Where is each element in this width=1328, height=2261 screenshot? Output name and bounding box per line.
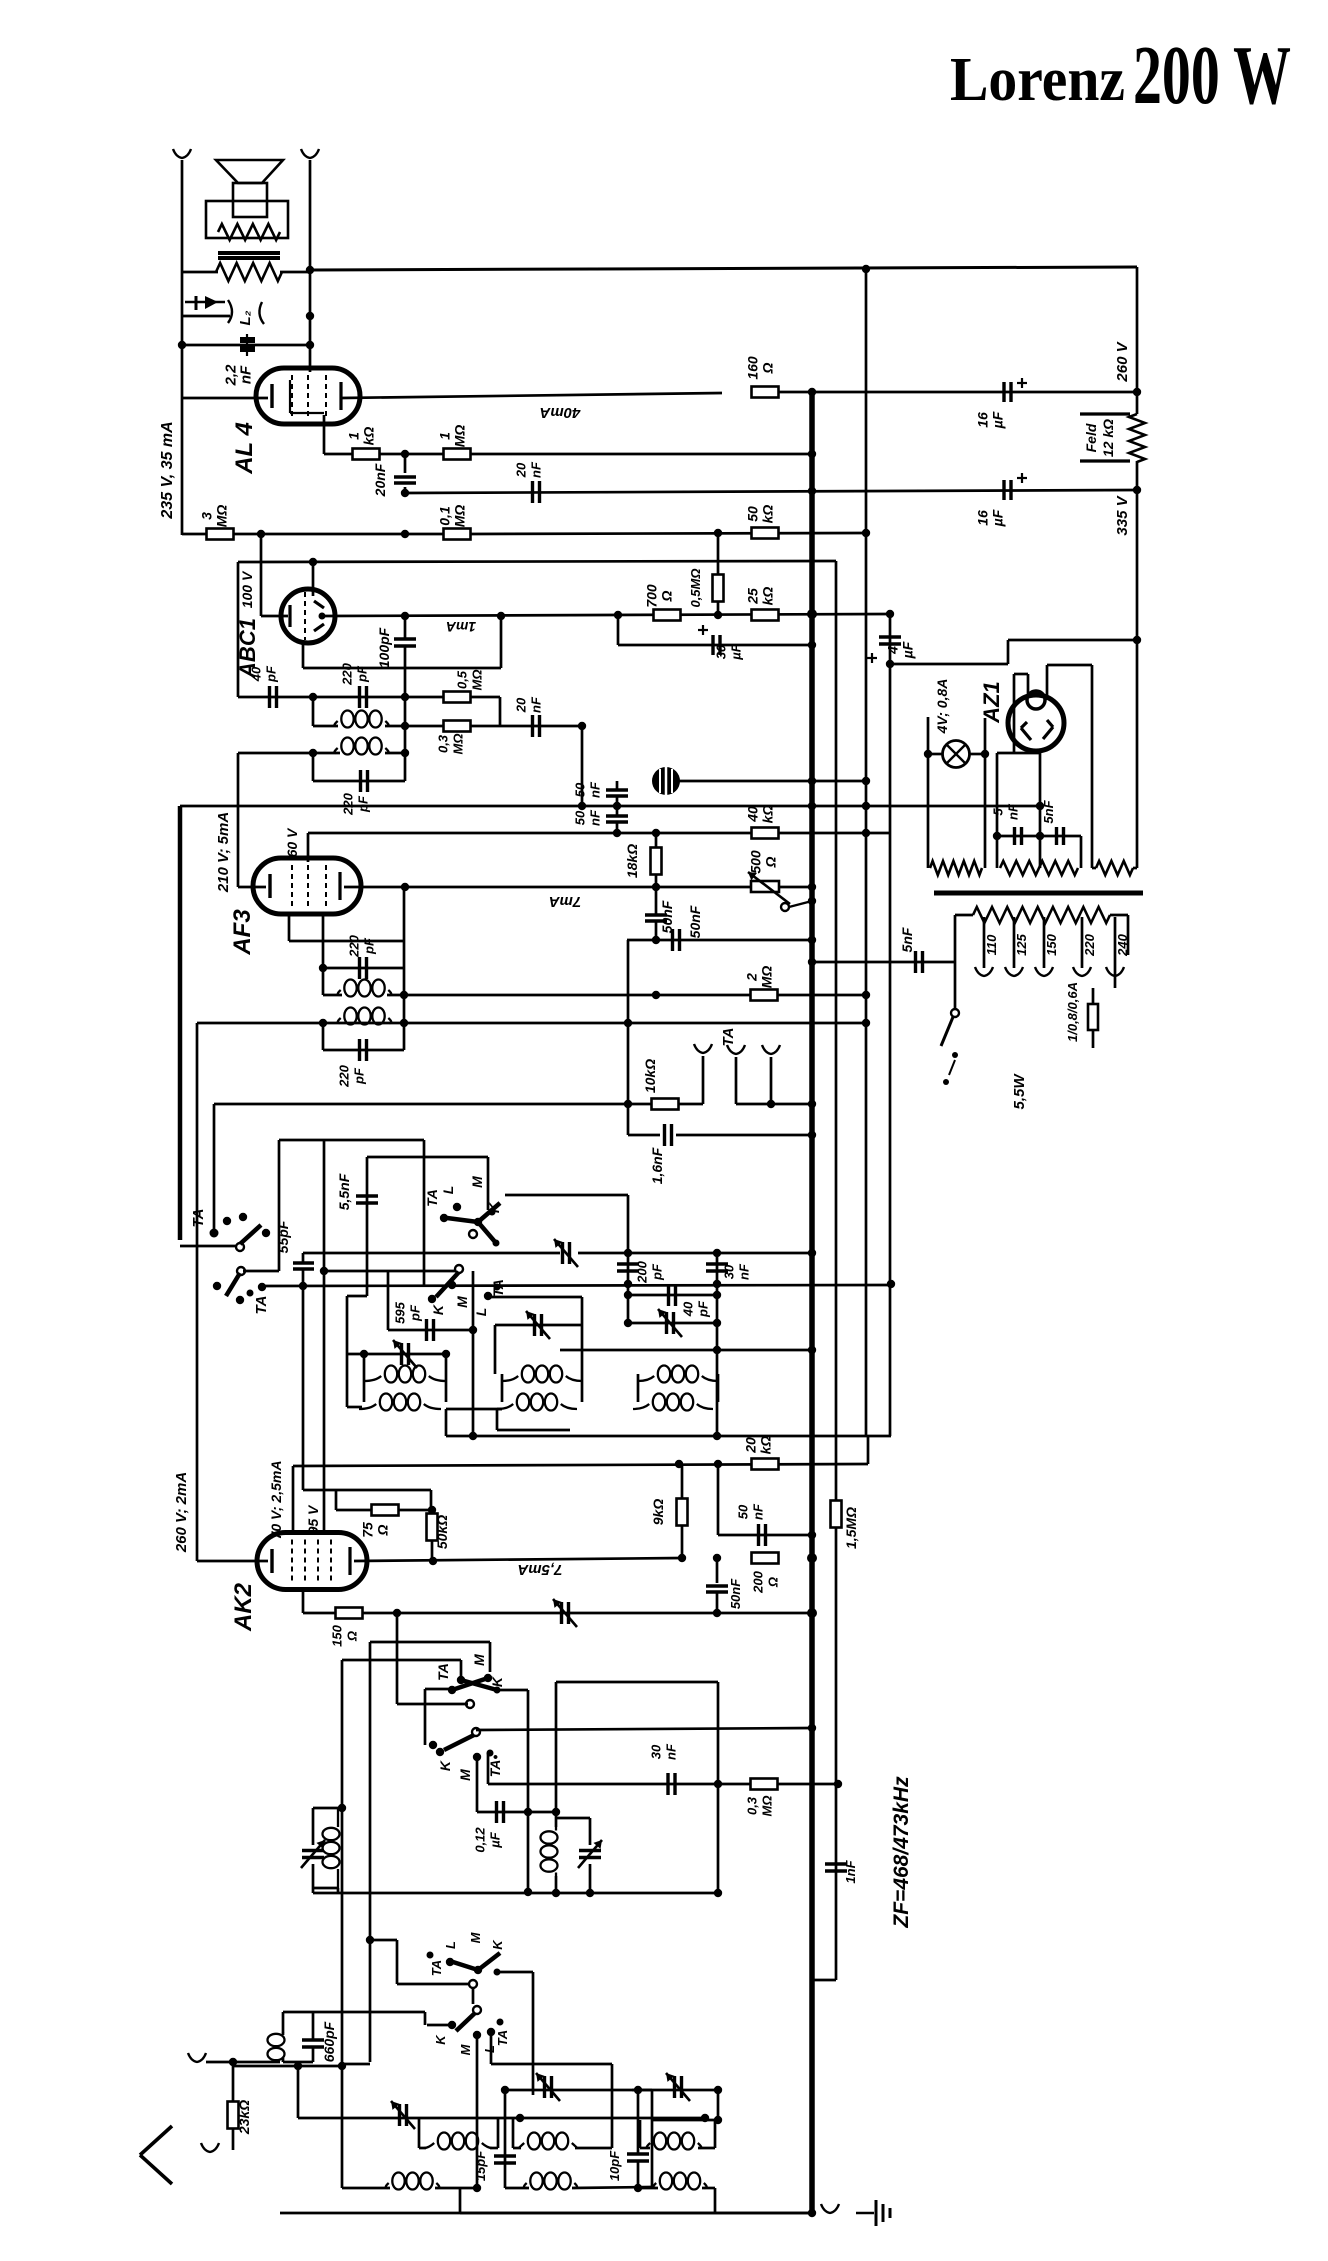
svg-text:pF: pF (264, 665, 279, 683)
wire 1271 row (324, 1270, 455, 1273)
capacitor 30 uF (713, 635, 720, 655)
node 313 753 (309, 749, 317, 757)
capacitor 220 pF AF3b (360, 1039, 367, 1061)
wire bottom long (460, 2212, 812, 2215)
bf3 u left stub (640, 2147, 650, 2150)
node 628 1295 (624, 1291, 632, 1299)
node 890 614 (886, 610, 894, 618)
node jack (306, 312, 314, 320)
label 1 MOhm (437, 425, 468, 448)
resistor 75 Ohm (372, 1505, 399, 1516)
capacitor 4 uF (879, 637, 901, 644)
node 364 1355 (360, 1350, 368, 1358)
label 150 Ohm (330, 1624, 360, 1646)
wire AF3 cathode (238, 886, 266, 889)
wire plate left v (1013, 674, 1016, 753)
IF transformer 1 right (445, 1374, 448, 1402)
svg-text:25: 25 (745, 588, 761, 605)
label K d (437, 1760, 453, 1771)
wire 397 vert e (396, 1940, 399, 1984)
svg-text:150: 150 (1044, 933, 1059, 955)
svg-text:220: 220 (1082, 933, 1097, 956)
wire fil right v (1039, 753, 1042, 868)
wire stack a (616, 781, 619, 790)
wire L row (491, 2063, 612, 2066)
wire 500 vert (499, 697, 502, 726)
capacitor 40 pF (270, 686, 277, 708)
svg-text:TA: TA (424, 1189, 440, 1207)
svg-text:µF: µF (990, 411, 1006, 429)
resistor 160 ohm (752, 387, 779, 398)
node bus 1728 (808, 1724, 816, 1732)
svg-text:210 V; 5mA: 210 V; 5mA (215, 812, 232, 893)
wire 664 row (890, 663, 1008, 666)
node 866 1023 (862, 1019, 870, 1027)
node 985 754 (981, 750, 989, 758)
label ABC1 (235, 618, 260, 679)
wire 940 row (627, 939, 812, 942)
svg-text:nF: nF (737, 1263, 752, 1280)
wire 1325 row (495, 1324, 582, 1327)
wire lamp row (928, 753, 942, 756)
IF2 drop (496, 1409, 499, 1430)
wire 425 vert (424, 1689, 427, 1745)
label 30uF (714, 643, 744, 660)
node 656 833 (652, 829, 660, 837)
svg-text:50nF: 50nF (728, 1578, 743, 1609)
svg-text:55pF: 55pF (275, 1220, 291, 1253)
resistor 40 kOhm (752, 828, 779, 839)
wire 238 down a (237, 562, 240, 697)
IF2 link l (497, 1408, 502, 1411)
wire osc tank1 lb (312, 1864, 315, 1888)
wire 501 vert (500, 616, 503, 668)
band filter 1 coil lower (386, 2173, 440, 2190)
wire AF3 grid (307, 833, 310, 862)
svg-text:20: 20 (514, 697, 529, 713)
svg-text:M: M (468, 1931, 483, 1943)
svg-text:nF: nF (529, 461, 544, 478)
wire 404 down (403, 887, 406, 1023)
svg-text:AZ1: AZ1 (979, 681, 1004, 724)
wire 1682 row (556, 1681, 718, 1684)
node 628 1283 (624, 1280, 632, 1288)
wire 995 row (323, 994, 342, 997)
svg-text:TA: TA (490, 1279, 506, 1297)
label 0,3 MOhm (436, 734, 466, 755)
label 20nF (372, 463, 388, 497)
wire 717 vert (716, 1253, 719, 1433)
label 210V 5mA (215, 812, 232, 893)
wire screen loop l (288, 914, 291, 941)
wire 1642 row (370, 1641, 490, 1644)
svg-text:10kΩ: 10kΩ (642, 1059, 658, 1093)
resistor 50 kOhm a (752, 528, 779, 539)
svg-text:pF: pF (355, 665, 370, 683)
resistor 9 kOhm (677, 1499, 688, 1526)
ground symbol (856, 2200, 890, 2226)
wire 618 down (617, 615, 620, 645)
label TA f (495, 2030, 510, 2046)
node 618 615 (614, 611, 622, 619)
hook TA 3 (762, 1045, 780, 1054)
resistor 150 Ohm (336, 1608, 363, 1619)
svg-text:40mA: 40mA (540, 404, 582, 421)
tone jack (185, 296, 264, 324)
label L2 (237, 310, 254, 325)
node speaker rail (178, 341, 186, 349)
resistor 1,5 MOhm (831, 1501, 842, 1528)
node 718 1464 (714, 1460, 722, 1468)
label 20 kOhm (743, 1436, 774, 1455)
svg-text:Ω: Ω (659, 590, 675, 602)
bf1 u left stub (419, 2147, 426, 2150)
wire antenna filter row (233, 2065, 342, 2068)
wire K right (497, 1689, 528, 1692)
label 70V 25mA (268, 1461, 284, 1540)
svg-text:1: 1 (437, 432, 453, 440)
svg-text:3: 3 (199, 512, 215, 520)
wire 612 down (611, 2064, 614, 2148)
wire 100pF bottom (404, 646, 407, 697)
svg-text:2: 2 (744, 973, 760, 982)
svg-text:ZF=468/473kHz: ZF=468/473kHz (890, 1776, 913, 1929)
svg-text:12 kΩ: 12 kΩ (1100, 419, 1116, 457)
resistor 0,3 MOhm (444, 721, 471, 732)
svg-text:AF3: AF3 (229, 909, 256, 956)
node 638 2090 (634, 2086, 642, 2094)
wire 431 vert (430, 1490, 433, 1510)
svg-text:1,6nF: 1,6nF (649, 1147, 665, 1184)
node 628 1023 (624, 1019, 632, 1027)
label 50nF 940 (659, 900, 675, 933)
bf1 u right stub (490, 2147, 498, 2150)
bf3 l corner (714, 2188, 717, 2213)
coil tank1 ABC1 (334, 738, 388, 755)
fuse 1/0,8/0,6A (1088, 1004, 1098, 1030)
svg-text:200: 200 (635, 1260, 650, 1283)
node 718 1893 (714, 1889, 722, 1897)
wire right rail upper (1136, 267, 1139, 414)
wire 1295 row (628, 1294, 717, 1297)
wire gang row 2118 (298, 2117, 705, 2120)
svg-text:200: 200 (751, 1570, 766, 1593)
wire jack row (182, 315, 230, 318)
capacitor 40 pF b (669, 1284, 676, 1306)
wire grid to 1k (324, 453, 353, 456)
svg-text:MΩ: MΩ (759, 966, 775, 989)
wire 1323 row (628, 1322, 717, 1325)
svg-text:K: K (433, 2034, 448, 2045)
label K a (486, 1202, 502, 1213)
svg-text:pF: pF (650, 1263, 665, 1281)
speaker coil box (233, 183, 267, 217)
resistor 25 kOhm (752, 610, 779, 621)
node 432 1510 (428, 1506, 436, 1514)
tap 240 (1114, 917, 1117, 968)
node 582 806 (578, 802, 586, 810)
label 0,5MOhm vert (688, 568, 703, 607)
label TA c (435, 1663, 451, 1681)
svg-text:5nF: 5nF (1041, 799, 1056, 823)
wire AK2 bottom pin (302, 1590, 305, 1613)
winding prim right (1110, 914, 1128, 917)
wire 432 vert (431, 1540, 434, 1561)
label M e (468, 1931, 483, 1943)
capacitor 1,6 nF (665, 1124, 672, 1146)
wire jog 1296 (347, 1295, 367, 1298)
node 501 616 (497, 612, 505, 620)
wire 1355 row (347, 1353, 446, 1356)
svg-text:nF: nF (238, 365, 255, 384)
svg-text:4: 4 (885, 646, 901, 655)
svg-text:0,5MΩ: 0,5MΩ (688, 568, 703, 607)
band filter 3 coil lower (653, 2173, 706, 2190)
node 342 1808 (338, 1804, 346, 1812)
label 5,5nF (336, 1173, 352, 1210)
label M d (457, 1769, 473, 1781)
hook TA 2 (727, 1045, 745, 1054)
tube ABC1 (281, 589, 335, 643)
capacitor 50nF 1589 (706, 1586, 728, 1592)
label 0,3 M osc (745, 1796, 775, 1817)
wire 425 down (424, 2012, 427, 2025)
wire left rail top (181, 160, 184, 535)
svg-text:0,3: 0,3 (436, 734, 451, 753)
label 10pF (607, 2150, 622, 2181)
label 5,5W (1011, 1073, 1028, 1110)
coil antenna 660 (268, 2032, 285, 2062)
svg-text:M: M (471, 1654, 487, 1666)
wire speaker row (182, 271, 218, 274)
wire 9k top (681, 1464, 684, 1499)
label 20 nF inline (514, 461, 544, 478)
svg-text:MΩ: MΩ (470, 670, 485, 691)
wire 488 down (487, 1157, 490, 1210)
resistor 200 Ohm (752, 1553, 779, 1564)
band filter 2 coil lower (524, 2173, 577, 2190)
node top bus join (306, 266, 314, 274)
svg-text:AK2: AK2 (230, 1582, 257, 1632)
wire 342 vert low (341, 2066, 344, 2188)
wire plate right v (1091, 665, 1094, 868)
wire 10pF v2 (637, 2161, 640, 2188)
wire 367 vert (366, 1157, 369, 1296)
node 473 1436 (469, 1432, 477, 1440)
label 500 Ohm (748, 850, 779, 874)
node 656 940 (652, 936, 660, 944)
wire 718 vert up (717, 1682, 720, 1784)
wire 303 vert (302, 640, 305, 668)
svg-text:0,12: 0,12 (473, 1827, 488, 1853)
node 656 887 (652, 883, 660, 891)
IF transformer 2 primary coil (502, 1366, 582, 1383)
wire 20nF top (404, 454, 407, 473)
output transformer core (218, 253, 280, 258)
mains switch (941, 1009, 959, 1085)
label 1,6nF (649, 1147, 665, 1184)
label 220 pF AF3b (337, 1064, 367, 1087)
node 682 1558 (678, 1554, 686, 1562)
fuse lead bottom (1092, 1030, 1095, 1048)
svg-text:50: 50 (745, 506, 761, 522)
bf1 l corner (459, 2188, 462, 2213)
node 866 268 (862, 265, 870, 273)
band switch B (428, 1265, 501, 1303)
svg-text:L: L (440, 1186, 456, 1195)
node bus 962 (808, 958, 816, 966)
wire tank2 l (322, 1023, 325, 1050)
node 997 836 (993, 832, 1001, 840)
wire plate right h (1047, 664, 1092, 667)
bf1 u left (418, 2118, 421, 2148)
resistor 20 kOhm (752, 1459, 779, 1470)
bf3 u right stub (698, 2147, 715, 2150)
svg-text:70 V; 2,5mA: 70 V; 2,5mA (268, 1461, 284, 1540)
node 473 1330 (469, 1326, 477, 1334)
label AL4 (231, 422, 258, 475)
resistor 0,1 MOhm upper (444, 529, 471, 540)
svg-text:M: M (458, 2043, 473, 2055)
node 705 2118 (701, 2114, 709, 2122)
svg-text:TA: TA (720, 1028, 737, 1047)
wire 261 down (260, 534, 263, 616)
tap 125 (1013, 917, 1016, 968)
wire 1510 row (336, 1509, 431, 1512)
IF transformer 3 left (637, 1374, 640, 1402)
bf3 l left (638, 2187, 658, 2190)
svg-text:M: M (457, 1769, 473, 1781)
capacitor 16uF lower (1004, 480, 1011, 500)
label 700 Ohm (644, 584, 675, 608)
label 220 pF tank (341, 792, 371, 815)
wire 582 vert top (581, 1297, 584, 1325)
svg-text:MΩ: MΩ (452, 425, 468, 448)
wire fil shoulder (997, 752, 1040, 755)
svg-text:700: 700 (644, 584, 660, 608)
capacitor 30 nF (706, 1264, 728, 1271)
wire AL4 plate lead (341, 393, 722, 398)
svg-text:60 V: 60 V (284, 827, 300, 857)
label Feld (1083, 423, 1099, 452)
node 303 1286 (299, 1282, 307, 1290)
svg-text:235 V, 35 mA: 235 V, 35 mA (159, 421, 176, 519)
label 25 kOhm (745, 587, 776, 606)
node 528 1893 (524, 1888, 532, 1896)
node 405 887 (401, 883, 409, 891)
svg-text:MΩ: MΩ (451, 734, 466, 755)
bus left thick (178, 806, 183, 1240)
band filter 3 coil upper (647, 2133, 702, 2150)
capacitor 50 nF stack upper (606, 790, 628, 796)
node 404 1023 (400, 1019, 408, 1027)
tube AK2 (257, 1533, 367, 1590)
svg-text:L₂: L₂ (237, 310, 254, 325)
wire 1139 corner (628, 1134, 660, 1137)
wire L contact row (490, 1296, 582, 1299)
label 50nF 1535 (736, 1503, 766, 1520)
resistor 2 MOhm (751, 990, 778, 1001)
svg-text:220: 220 (340, 662, 355, 685)
label M c (471, 1654, 487, 1666)
wire lamp vl (927, 717, 930, 868)
node 717 1613 (713, 1609, 721, 1617)
node bus 1613 (807, 1608, 817, 1618)
wire 753 row b (385, 752, 405, 755)
svg-text:kΩ: kΩ (758, 1436, 774, 1455)
svg-text:75: 75 (360, 1522, 376, 1538)
label 235V 35mA (159, 421, 176, 519)
svg-text:TA•: TA• (487, 1755, 503, 1778)
svg-text:nF: nF (529, 696, 544, 713)
wire 490 drop (489, 1642, 492, 1672)
node 866 833 (862, 829, 870, 837)
node 335V corner (1133, 486, 1141, 494)
wire M down (476, 1757, 479, 1812)
wire 660 r (312, 2012, 315, 2040)
wire 718 bf3 (717, 2090, 720, 2120)
tap hook 125 (1005, 967, 1023, 976)
label AF3 (229, 909, 256, 956)
winding rectifier fil (1000, 861, 1078, 875)
svg-text:pF: pF (362, 937, 377, 955)
svg-text:µF: µF (488, 1831, 503, 1848)
svg-text:16: 16 (975, 510, 991, 526)
bf1 l left (342, 2187, 390, 2190)
hook antenna (188, 2053, 206, 2062)
wire sw2 pivot lead (243, 1270, 279, 1273)
band switch A (440, 1203, 500, 1247)
node 1040 836 (1036, 832, 1044, 840)
node bus 806 (808, 802, 816, 810)
wire hook2 down (735, 1057, 738, 1104)
IF2 step (445, 1409, 448, 1436)
node 718 615 (714, 611, 722, 619)
label 660pF (321, 2021, 337, 2062)
svg-text:9kΩ: 9kΩ (650, 1499, 666, 1526)
IF transformer 2 left (501, 1374, 504, 1402)
wire 1135 to bus (676, 1134, 812, 1137)
label TA a (424, 1189, 440, 1207)
wire right rail top (309, 160, 312, 372)
svg-text:40: 40 (681, 1301, 696, 1317)
wire 582 vert2 (581, 1325, 584, 1374)
trimmer osc 2 (578, 1840, 602, 1868)
wire 1535 row (718, 1534, 812, 1537)
wire 214 down (213, 1104, 216, 1233)
wire stack c (616, 822, 619, 833)
capacitor 220 pF AF3a (360, 957, 367, 979)
node 638 2188 (634, 2184, 642, 2192)
capacitor 50nF inline 940 (673, 929, 680, 951)
capacitor 50 nF stack lower (606, 816, 628, 822)
tap label 125 (1014, 933, 1029, 955)
label TA sw1 (190, 1209, 207, 1228)
node bus 1253 (808, 1249, 816, 1257)
IF transformer 1 secondary coil (359, 1394, 441, 1411)
wire osc tank1 bottom (313, 1887, 338, 1890)
svg-text:pF: pF (408, 1304, 423, 1322)
svg-text:Feld: Feld (1083, 423, 1099, 452)
wire 303 down (302, 1269, 305, 1490)
IF transformer 2 right (581, 1374, 584, 1402)
svg-text:nF: nF (588, 781, 603, 798)
feld bar top (1080, 412, 1130, 415)
bus 836 vertical (835, 561, 838, 1980)
wire ant a (206, 2061, 233, 2064)
node 628 1253 (624, 1249, 632, 1257)
node 324 1271 (320, 1267, 328, 1275)
